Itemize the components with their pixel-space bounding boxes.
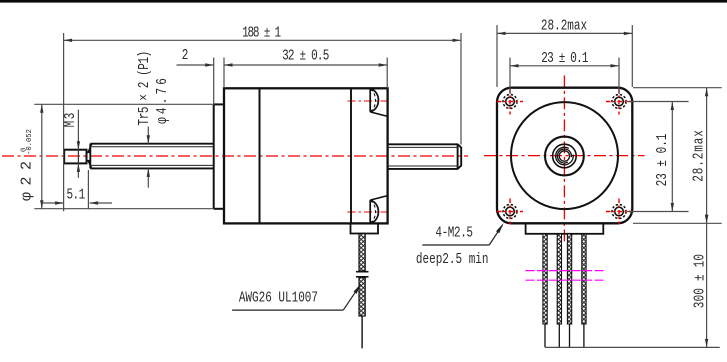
leader 4-M2.5 deep2.5 min	[422, 225, 502, 245]
lead wire 3	[567, 234, 571, 324]
red horizontal centerline (front view)	[484, 155, 645, 157]
top border line of drawing frame	[0, 0, 727, 3]
svg-text:188 ± 1: 188 ± 1	[242, 24, 281, 41]
dim 5.1	[42, 170, 112, 209]
dim text φ22 with tolerance (rotated)	[19, 129, 36, 201]
screw thread arc mid	[557, 149, 571, 163]
svg-text:300 ± 10: 300 ± 10	[691, 254, 708, 308]
dim text Tr5 × 2 (P1) rotated	[136, 51, 153, 125]
label 4-M2.5	[435, 224, 472, 241]
dim text 188±1	[242, 24, 281, 41]
rear screw thread root lines	[388, 147, 459, 166]
mounting hole top-right	[606, 89, 632, 115]
red centerline lower mounting hole (side view)	[348, 211, 392, 213]
rear screw stub OD	[388, 144, 462, 169]
lead wire bare end (side view)	[361, 316, 363, 348]
dim Tr5x2 / φ4.76 arrow line	[147, 127, 149, 188]
lower mounting hole feature (side view)	[370, 196, 388, 224]
wire housing (side view)	[351, 223, 379, 233]
dim M3	[77, 110, 79, 178]
dim 2 (boss protrusion)	[177, 58, 214, 105]
shaft neck between M3 tip and screw	[87, 144, 92, 168]
dim text 28.2max top	[541, 17, 587, 34]
dim 28.2max right	[633, 88, 722, 224]
hub inner ring	[553, 144, 577, 168]
M3 threaded tip	[64, 150, 86, 164]
dim 188±1 line	[64, 33, 461, 211]
magenta tape line 2	[526, 279, 605, 281]
front flange line	[259, 88, 261, 223]
svg-text:φ22: φ22	[19, 154, 36, 201]
dim text 32±0.5	[282, 47, 329, 64]
dim 32±0.5	[224, 58, 387, 89]
body circle (front view)	[511, 102, 618, 209]
dim text φ4.76 rotated	[154, 75, 171, 124]
mounting hole bottom-left	[497, 199, 523, 225]
dim 28.2max top	[497, 25, 632, 87]
mounting hole bottom-right	[606, 199, 632, 225]
magenta tape line 1	[526, 270, 605, 272]
lead wire 4	[582, 234, 586, 324]
dim text 23±0.1 top	[541, 49, 588, 66]
svg-text:28.2max: 28.2max	[541, 17, 587, 34]
screw core circle	[559, 151, 569, 161]
svg-text:Tr5 × 2 (P1): Tr5 × 2 (P1)	[136, 51, 153, 125]
svg-text:23 ± 0.1: 23 ± 0.1	[541, 49, 588, 66]
dim text 300±10 (rotated)	[691, 254, 708, 308]
svg-text:32 ± 0.5: 32 ± 0.5	[282, 47, 329, 64]
hub boss circle	[545, 137, 584, 176]
red main centerline (shaft axis)	[2, 155, 468, 157]
dim text 2	[182, 46, 189, 63]
motor faceplate square	[497, 88, 632, 224]
dim text 28.2max right (rotated)	[690, 129, 707, 181]
svg-text:M3: M3	[61, 111, 78, 127]
upper mounting hole feature (side view)	[370, 88, 388, 116]
svg-text:2: 2	[182, 46, 189, 63]
lead wire lower hatched segment	[359, 278, 365, 317]
lead wire upper segment (side view, hatched)	[359, 234, 365, 272]
lead screw front section OD	[90, 144, 213, 169]
label deep2.5 min	[416, 250, 489, 267]
lead screw front thread root lines	[92, 147, 214, 166]
wire break marks	[356, 271, 369, 273]
label AWG26 UL1007	[239, 289, 318, 306]
dim text 5.1	[66, 186, 85, 203]
red centerline upper mounting hole (side view)	[348, 100, 392, 102]
screw thread arc outer	[556, 147, 574, 165]
motor body outline (side view)	[224, 88, 388, 223]
dim φ22 0/-0.052	[34, 104, 213, 208]
mounting hole top-left	[497, 89, 523, 115]
red vertical centerline (front view)	[563, 75, 565, 243]
pilot boss (side view)	[214, 104, 224, 208]
svg-text:5.1: 5.1	[66, 186, 85, 203]
lead wire 1 (front view)	[543, 234, 547, 324]
svg-text:AWG26 UL1007: AWG26 UL1007	[239, 289, 318, 306]
lead wire 2	[557, 234, 561, 324]
svg-text:-0.052: -0.052	[26, 129, 34, 155]
rear endbell line	[350, 88, 352, 223]
wire housing (front view)	[526, 223, 604, 234]
wire bare ends (front view)	[545, 324, 584, 347]
dim text 23±0.1 right (rotated)	[654, 133, 671, 186]
svg-text:φ4.76: φ4.76	[154, 75, 171, 124]
dim 23±0.1 top	[510, 58, 619, 95]
dim text M3 (rotated)	[61, 111, 78, 127]
svg-text:28.2max: 28.2max	[690, 129, 707, 181]
leader AWG26 UL1007	[232, 285, 360, 310]
dim 23±0.1 right	[627, 102, 689, 212]
svg-text:4-M2.5: 4-M2.5	[435, 224, 472, 241]
svg-text:deep2.5 min: deep2.5 min	[416, 250, 489, 267]
dim 300±10	[545, 223, 720, 347]
svg-text:23 ± 0.1: 23 ± 0.1	[654, 133, 671, 186]
